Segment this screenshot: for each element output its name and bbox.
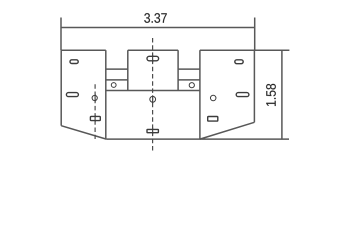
internal bend line at x=106: [105, 50, 107, 139]
slot center bottom: [147, 129, 158, 132]
slot right wing middle: [236, 93, 249, 97]
left strap upper line: [106, 68, 128, 70]
slot center tab top: [147, 56, 159, 61]
dim text 3.37: [144, 13, 167, 23]
dim 3.37 left extension line: [60, 18, 62, 51]
centerline main (vertical through center tab): [152, 38, 154, 152]
centerline segment through center bottom slot: [152, 128, 154, 135]
slot right wing bottom: [208, 117, 218, 122]
centerline left wing: [94, 84, 96, 139]
part outline: left edge: [60, 50, 62, 126]
slot right wing top: [235, 60, 243, 64]
hole right wing: [210, 95, 216, 101]
left strap lower line: [106, 79, 128, 81]
part outline: bottom-right chamfer: [200, 122, 255, 139]
centerline segment through left hole: [94, 94, 96, 102]
dim text 1.58: [266, 84, 276, 106]
slot left wing top: [70, 60, 78, 64]
centerline segment through center top slot: [152, 55, 154, 63]
right strap upper line: [178, 68, 200, 70]
hole center: [150, 96, 156, 102]
centerline segment through left bottom slot: [94, 115, 96, 122]
hole left strap: [111, 83, 116, 88]
cross bend line at y=90.5: [106, 90, 200, 92]
hole right strap: [189, 83, 194, 88]
centerline segment through center hole: [152, 95, 154, 103]
part outline: left wing top edge: [61, 49, 106, 51]
dim 1.58 dimension line: [281, 50, 283, 139]
part outline: bottom edge + bottom extension line of 1.58 dim: [106, 138, 289, 140]
slot left wing middle: [66, 93, 78, 97]
slot left wing bottom: [90, 116, 100, 120]
dim 3.37 dimension line: [61, 27, 255, 29]
center tab left edge: [127, 50, 129, 90]
part outline: right wing top edge + top extension line of 1.58 dim: [200, 49, 290, 51]
part outline: center tab top edge: [128, 49, 178, 51]
part outline: right edge: [253, 50, 255, 122]
internal bend line at x=200: [199, 50, 201, 139]
center tab right edge: [177, 50, 179, 90]
part outline: bottom-left chamfer: [61, 126, 106, 139]
hole left wing: [92, 95, 97, 100]
dim 3.37 right extension line: [254, 18, 256, 51]
right strap lower line: [178, 79, 200, 81]
